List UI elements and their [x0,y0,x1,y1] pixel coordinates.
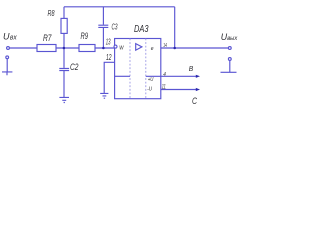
output terminal [228,47,231,50]
capacitor C3 [98,25,108,27]
divider 1 [129,39,131,99]
wire R9 to pin13 [95,47,114,49]
wire C3 bottom leg [102,28,104,48]
wire output ground [229,60,231,72]
wire C3 top leg [102,7,104,25]
pin 4 wire +U [146,75,196,77]
svg-text:13: 13 [106,37,111,46]
junction node B [102,47,105,50]
arrow B [196,75,200,78]
resistor R8 [61,18,67,33]
wire top feedback rail [64,6,175,8]
wire input to R7 [9,47,37,49]
ground output [221,71,237,73]
ground terminal input [6,56,9,59]
svg-text:B: B [189,66,194,73]
output ground terminal [228,58,231,61]
resistor R9 [79,45,95,52]
wire R8 top to rail [63,7,65,19]
ground pin 12 [100,93,108,98]
junction node A [63,47,66,50]
wire input ground [6,59,8,72]
pin 13 bubble [114,45,117,48]
svg-text:C: C [192,96,197,107]
svg-text:11: 11 [162,84,166,91]
wire C2 to ground [63,71,65,97]
capacitor C2 [59,68,69,70]
op-amp triangle [136,44,142,51]
pin 12 wire [104,62,114,93]
svg-text:4: 4 [163,72,166,78]
wire R7 to R9 [56,47,79,49]
junction output node [173,47,176,50]
svg-text:12: 12 [106,53,112,62]
svg-text:e: e [151,46,154,52]
wire feedback drop [174,7,176,48]
ground input [2,72,12,75]
arrow C [196,88,200,91]
pin 11 wire -U [161,89,196,91]
op-amp DA3 box [115,39,161,99]
ground under C2 [59,97,69,102]
svg-text:C2: C2 [70,62,79,73]
input terminal Uvx [7,47,10,50]
svg-text:вх: вх [10,34,17,41]
svg-text:14: 14 [163,43,167,49]
svg-text:R7: R7 [43,33,52,44]
svg-text:R9: R9 [81,31,89,41]
divider 2 [145,39,147,99]
svg-text:C3: C3 [112,23,118,32]
wire R8 branch [63,33,65,48]
svg-text:R8: R8 [48,8,55,18]
svg-text:-U: -U [147,86,152,92]
left column cell divider [115,75,130,77]
svg-text:+U: +U [148,77,154,83]
output wire pin 14 [161,47,229,49]
svg-text:DA3: DA3 [134,24,149,35]
resistor R7 [37,45,56,52]
wire C2 branch [63,48,65,68]
svg-text:вых: вых [227,35,238,42]
